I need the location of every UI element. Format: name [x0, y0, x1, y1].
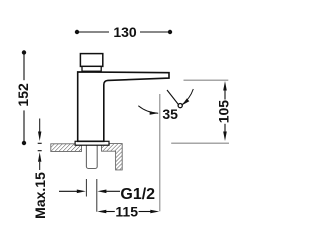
svg-text:Max.15: Max.15 — [32, 172, 48, 219]
base flange — [75, 141, 109, 145]
counter level reference line — [171, 142, 229, 144]
handle cap — [80, 54, 102, 67]
Max.15 ticks — [38, 142, 42, 144]
dim 105 arrows — [223, 81, 227, 91]
countertop left section — [51, 144, 82, 152]
threaded shank — [86, 144, 97, 169]
dim 115 arrows — [97, 210, 106, 214]
35 degree sloped line — [167, 90, 179, 105]
dim 152 line — [23, 53, 25, 144]
degree symbol — [178, 104, 182, 108]
G1/2 left arrow — [59, 190, 86, 194]
dim 152 end dots — [22, 50, 26, 54]
svg-text:105: 105 — [216, 100, 232, 124]
dim 115 line — [106, 211, 151, 213]
dim 105 line — [224, 91, 226, 132]
handle collar — [82, 66, 101, 71]
faucet body and spout outline — [78, 72, 169, 141]
Max.15 down arrow — [38, 119, 41, 142]
G1/2 right arrow — [97, 190, 120, 194]
dim 130 line — [77, 31, 170, 33]
svg-text:G1/2: G1/2 — [120, 186, 155, 203]
Max.15 up arrow — [38, 152, 41, 170]
G1/2 extension line right — [96, 179, 98, 212]
dim 130 end dots — [75, 30, 79, 34]
svg-text:115: 115 — [115, 203, 138, 219]
vertical reference line — [159, 94, 161, 211]
svg-text:152: 152 — [15, 83, 31, 107]
spout level reference line — [184, 79, 229, 81]
svg-text:35: 35 — [162, 106, 178, 122]
35 degree right arc arrow — [182, 89, 194, 105]
countertop right section — [102, 144, 123, 170]
svg-text:130: 130 — [113, 24, 137, 40]
G1/2 extension line left — [85, 179, 87, 197]
35 degree left arc arrow — [138, 106, 158, 115]
